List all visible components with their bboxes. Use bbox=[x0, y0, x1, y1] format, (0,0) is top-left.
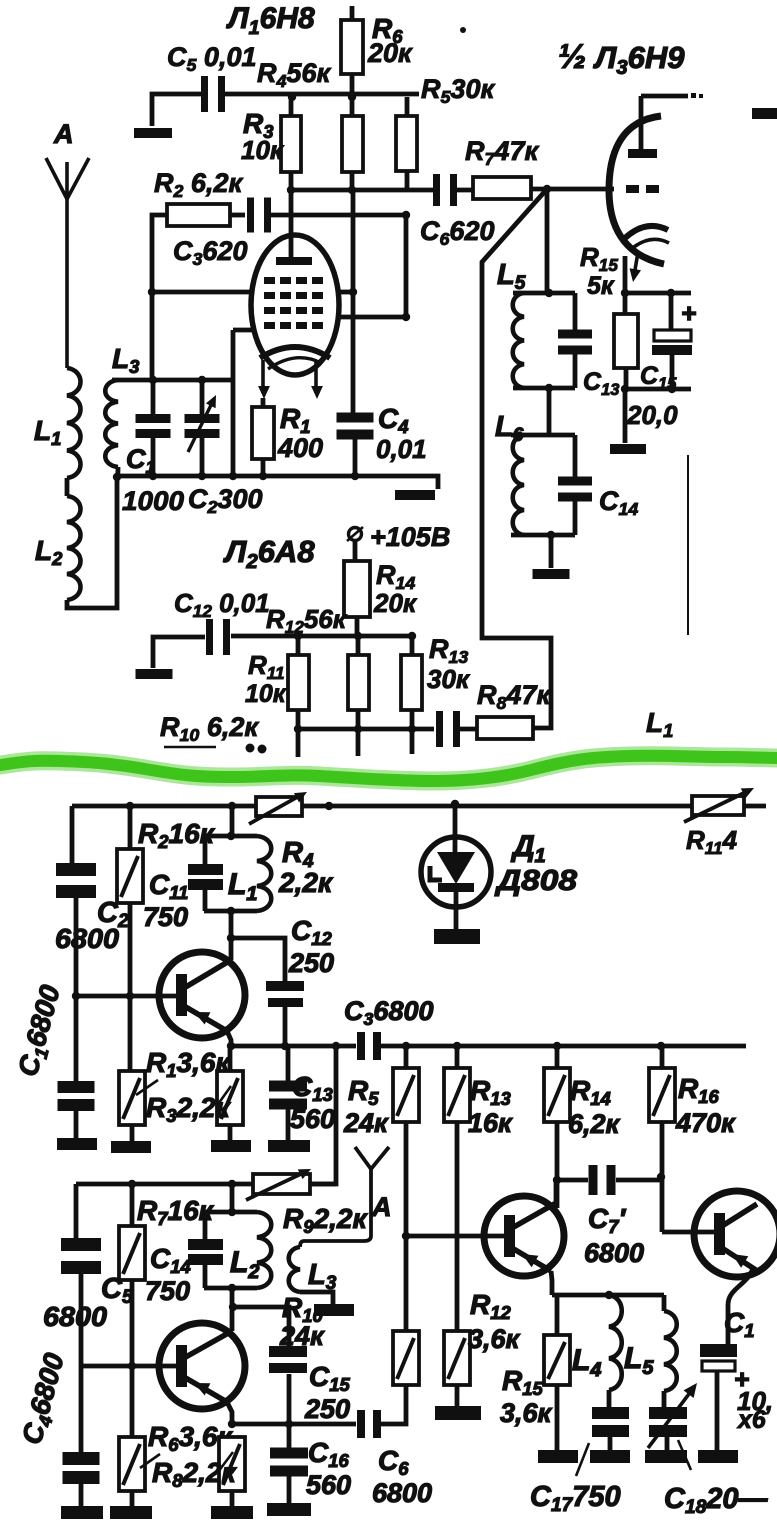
svg-text:А: А bbox=[371, 1192, 392, 1222]
resistor R15 bbox=[614, 314, 638, 368]
node bbox=[294, 725, 302, 733]
wire bbox=[230, 1288, 235, 1307]
svg-text:R2 6,2к: R2 6,2к bbox=[154, 168, 243, 201]
node bbox=[287, 186, 295, 194]
wire bbox=[204, 1210, 257, 1215]
svg-text:Д808: Д808 bbox=[494, 865, 578, 897]
wire bbox=[220, 92, 419, 97]
wire bbox=[203, 890, 208, 911]
resistor R5b bbox=[393, 1068, 419, 1122]
node bbox=[348, 186, 356, 194]
wire tank1 bbox=[230, 806, 235, 834]
capacitor C5 bbox=[201, 76, 208, 112]
ground bbox=[590, 1450, 630, 1463]
wire bbox=[310, 1046, 336, 1184]
wire bbox=[153, 637, 205, 668]
svg-text:R456к: R456к bbox=[257, 58, 331, 91]
coil L4 bbox=[609, 1295, 622, 1390]
transistor T2 bbox=[159, 1323, 245, 1409]
ground bbox=[434, 929, 480, 944]
wire dots bbox=[691, 93, 696, 98]
resistor R11b bbox=[288, 655, 309, 710]
coil L1 bbox=[67, 368, 81, 478]
wire anode bbox=[289, 190, 294, 258]
svg-text:х6: х6 bbox=[736, 1406, 767, 1434]
svg-text:R32,2к: R32,2к bbox=[146, 1092, 231, 1126]
ground bbox=[111, 1141, 151, 1153]
wire bbox=[404, 1122, 409, 1236]
ground bbox=[57, 1138, 97, 1150]
T4 collector bbox=[722, 1204, 757, 1226]
capacitor C6 bbox=[433, 174, 440, 206]
capacitor C15 elec bbox=[654, 330, 691, 341]
wire bbox=[227, 1402, 232, 1424]
T2 base bar bbox=[176, 1345, 187, 1387]
svg-text:C3620: C3620 bbox=[173, 236, 247, 269]
wire bbox=[625, 291, 691, 296]
wire anode V3 bbox=[639, 96, 644, 150]
transistor T4 bbox=[694, 1191, 777, 1277]
svg-text:+: + bbox=[681, 298, 696, 328]
coil L5b bbox=[664, 1311, 677, 1391]
wire bbox=[552, 1293, 664, 1298]
svg-text:0,01: 0,01 bbox=[376, 434, 427, 464]
wire bbox=[291, 188, 434, 193]
svg-text:R747к: R747к bbox=[465, 136, 539, 169]
dots bbox=[246, 744, 255, 753]
wire bbox=[728, 1268, 753, 1344]
wire grid1 bbox=[152, 290, 252, 295]
ground bbox=[533, 569, 570, 579]
capacitor C12v bbox=[266, 981, 304, 991]
svg-text:C6620: C6620 bbox=[420, 216, 494, 249]
resistor R16 bbox=[649, 1068, 675, 1122]
diode D1 triangle bbox=[437, 852, 475, 884]
svg-text:20,0: 20,0 bbox=[626, 400, 678, 430]
node bbox=[402, 211, 410, 219]
ground bbox=[268, 1140, 310, 1152]
tube V3 cath arrow bbox=[634, 252, 638, 276]
resistor R8c bbox=[219, 1437, 245, 1491]
capacitor C4 bbox=[337, 413, 374, 423]
capacitor C13 bbox=[558, 330, 592, 339]
capacitor C2 arrow bbox=[188, 403, 212, 452]
wire tails bbox=[296, 729, 301, 757]
green divider bbox=[0, 756, 777, 781]
wire bbox=[283, 1007, 288, 1046]
ground bbox=[395, 490, 435, 500]
svg-text:20к: 20к bbox=[373, 588, 418, 618]
svg-text:Л16Н8: Л16Н8 bbox=[226, 2, 315, 39]
wire bbox=[513, 386, 575, 391]
capacitor C2 var bbox=[185, 414, 220, 423]
wire bbox=[70, 806, 75, 863]
wire bbox=[74, 1184, 79, 1238]
resistor R14b bbox=[344, 561, 370, 617]
antenna A2 bbox=[355, 1147, 389, 1169]
ground bbox=[110, 1506, 152, 1519]
wire bbox=[381, 1385, 406, 1424]
resistor R8b bbox=[477, 717, 533, 739]
coil L3b bbox=[289, 1247, 300, 1292]
wire bbox=[152, 94, 206, 126]
svg-text:2,2к: 2,2к bbox=[278, 867, 334, 898]
capacitor C5b bbox=[61, 1238, 101, 1251]
coil L3 bbox=[105, 380, 118, 467]
svg-text:C36800: C36800 bbox=[344, 996, 434, 1029]
wire bbox=[117, 467, 118, 477]
svg-text:6800: 6800 bbox=[372, 1478, 432, 1508]
T4 emitter bbox=[722, 1248, 756, 1270]
rheostat R4 bbox=[256, 797, 302, 816]
resistor R6b bbox=[119, 1437, 145, 1491]
wire base4 bbox=[662, 1230, 714, 1235]
capacitor C6b bbox=[357, 1410, 365, 1438]
resistor R13c bbox=[444, 1068, 470, 1122]
diode D1 circle bbox=[421, 837, 491, 907]
svg-text:6800: 6800 bbox=[43, 1301, 107, 1332]
node bbox=[348, 93, 356, 101]
coil L5 bbox=[513, 293, 524, 388]
wire emitter bus bbox=[231, 1044, 356, 1049]
capacitor C15b bbox=[269, 1346, 307, 1357]
svg-text:560: 560 bbox=[306, 1470, 351, 1500]
svg-text:C7′: C7′ bbox=[588, 1203, 627, 1237]
resistor R6 bbox=[341, 20, 363, 74]
wire base2 bbox=[81, 1364, 176, 1369]
wire bbox=[557, 1178, 588, 1183]
node bbox=[402, 1232, 410, 1240]
transistor T1 bbox=[159, 952, 245, 1038]
ground bbox=[211, 1506, 253, 1519]
ground bbox=[61, 1506, 103, 1519]
resistor R7b bbox=[119, 1226, 145, 1280]
wire bbox=[203, 836, 208, 864]
coil L6 bbox=[513, 435, 524, 535]
wire bbox=[623, 256, 628, 293]
wire bbox=[660, 1122, 665, 1232]
T2 collector bbox=[184, 1331, 232, 1358]
coil L2 bbox=[67, 496, 81, 600]
node bbox=[667, 289, 675, 297]
capacitor C19 bbox=[700, 1344, 737, 1357]
wire grid2 bbox=[338, 290, 353, 295]
wire bbox=[203, 1265, 208, 1288]
svg-text:C17750: C17750 bbox=[530, 1481, 621, 1516]
svg-text:R92,2к: R92,2к bbox=[283, 1203, 368, 1237]
wire bus3 bbox=[76, 1182, 336, 1187]
ground bbox=[267, 1503, 311, 1516]
capacitor C18 arrow bbox=[648, 1390, 692, 1448]
svg-text:Л26А8: Л26А8 bbox=[223, 534, 315, 573]
wire bus2 bbox=[298, 727, 434, 732]
wire grid3 bbox=[336, 315, 406, 320]
capacitor C17 bbox=[592, 1407, 629, 1419]
wire bbox=[623, 389, 628, 443]
resistor R3 bbox=[281, 116, 301, 172]
node bbox=[294, 632, 302, 640]
ground bbox=[134, 128, 172, 138]
capacitor C3b bbox=[357, 1032, 365, 1060]
wire bbox=[67, 477, 117, 608]
wire bbox=[204, 1286, 257, 1291]
wire bbox=[454, 892, 459, 929]
node bbox=[281, 1042, 289, 1050]
wire bbox=[230, 213, 245, 218]
svg-text:R1256к: R1256к bbox=[266, 604, 348, 637]
svg-text:6,2к: 6,2к bbox=[568, 1109, 621, 1139]
capacitor C3 bbox=[247, 198, 254, 233]
resistor R5 bbox=[396, 116, 417, 171]
ground bbox=[136, 669, 173, 679]
svg-text:3,6к: 3,6к bbox=[468, 1324, 521, 1354]
resistor R2b bbox=[117, 849, 143, 903]
tube V3 cathode bbox=[625, 226, 668, 238]
svg-text:20к: 20к bbox=[367, 38, 413, 68]
wire bbox=[270, 213, 406, 218]
capacitor C13b bbox=[269, 1081, 307, 1092]
capacitor C4b bbox=[63, 1452, 100, 1465]
T3 base bar bbox=[504, 1215, 515, 1257]
node bbox=[227, 934, 235, 942]
wire bbox=[555, 1122, 560, 1208]
capacitor C12b bbox=[206, 619, 213, 655]
svg-text:750: 750 bbox=[145, 1276, 190, 1306]
node bbox=[288, 93, 296, 101]
wire bbox=[404, 215, 409, 317]
ground bbox=[211, 1140, 251, 1152]
tube heater leads bbox=[261, 360, 265, 393]
capacitor C9 bbox=[436, 711, 443, 747]
resistor R2 bbox=[167, 204, 230, 226]
wire bbox=[513, 291, 575, 296]
stray dot bbox=[460, 27, 466, 33]
wire out bus bbox=[381, 1044, 746, 1049]
node bbox=[128, 1180, 136, 1188]
wire base3 bbox=[406, 1234, 504, 1239]
wire bbox=[482, 189, 551, 728]
wire bbox=[233, 1307, 289, 1347]
capacitor C2b bbox=[56, 863, 96, 876]
wire bbox=[300, 1292, 333, 1304]
rheostat R11 bbox=[692, 796, 744, 815]
wire bbox=[229, 911, 234, 938]
svg-text:5к: 5к bbox=[587, 272, 615, 300]
svg-text:А: А bbox=[53, 119, 74, 149]
resistor R1 bbox=[252, 407, 274, 459]
wire bbox=[204, 909, 257, 914]
svg-text:250: 250 bbox=[304, 1394, 350, 1424]
T1 base bar bbox=[176, 974, 187, 1016]
wire bbox=[203, 1212, 208, 1239]
wire bbox=[455, 1122, 460, 1331]
capacitor C16 bbox=[270, 1448, 308, 1459]
wire tank2 bbox=[230, 1184, 235, 1211]
svg-text:C2300: C2300 bbox=[188, 484, 262, 517]
capacitor C14 bbox=[558, 477, 592, 486]
tube V3 grid bbox=[626, 185, 639, 193]
T4 base bar bbox=[714, 1213, 725, 1255]
svg-text:24к: 24к bbox=[279, 1321, 325, 1351]
node bbox=[229, 1303, 237, 1311]
resistor R15b bbox=[544, 1335, 570, 1385]
wire bus bbox=[117, 476, 438, 489]
resistor R7 bbox=[473, 177, 531, 199]
wire bbox=[551, 1271, 552, 1295]
wire bbox=[231, 938, 285, 982]
svg-text:C1820—: C1820— bbox=[664, 1483, 768, 1518]
corner mark bbox=[752, 108, 777, 119]
T1 emitter bbox=[184, 1006, 227, 1031]
coil L2c bbox=[257, 1212, 271, 1288]
wire bbox=[616, 1178, 662, 1183]
T1 collector bbox=[184, 960, 231, 988]
node bbox=[126, 802, 134, 810]
node bbox=[148, 288, 156, 296]
capacitor C1 bbox=[136, 414, 171, 423]
ground bbox=[538, 1450, 578, 1463]
capacitor C18 var bbox=[649, 1407, 687, 1419]
resistor R3b bbox=[217, 1071, 243, 1125]
svg-text:1000: 1000 bbox=[122, 486, 184, 516]
capacitor C11 bbox=[188, 864, 223, 875]
tube V3 anode plate bbox=[628, 149, 657, 158]
resistor mid bbox=[348, 655, 369, 710]
wire bus bbox=[231, 634, 414, 639]
svg-text:16к: 16к bbox=[468, 1108, 513, 1138]
wire base bbox=[76, 994, 176, 999]
resistor R12c bbox=[444, 1331, 470, 1385]
T3 collector bbox=[512, 1203, 556, 1228]
tube V3 envelope bbox=[609, 116, 664, 264]
resistor R13b bbox=[401, 655, 422, 710]
svg-text:250: 250 bbox=[288, 948, 334, 978]
node bbox=[553, 1176, 561, 1184]
wire bbox=[351, 190, 356, 413]
tube anode plate bbox=[276, 257, 312, 265]
svg-text:6800: 6800 bbox=[55, 923, 119, 954]
node bbox=[402, 1042, 410, 1050]
capacitor C4 wire bbox=[353, 438, 358, 476]
node A bbox=[543, 185, 551, 193]
svg-text:10к: 10к bbox=[241, 135, 285, 165]
wire bbox=[152, 215, 167, 381]
svg-text:750: 750 bbox=[143, 902, 188, 932]
svg-text:470к: 470к bbox=[675, 1108, 736, 1138]
wire bbox=[545, 189, 550, 293]
svg-text:6800: 6800 bbox=[584, 1238, 644, 1268]
tube grids bbox=[264, 277, 275, 284]
ground bbox=[698, 1450, 738, 1463]
wire emitter bus2 bbox=[232, 1422, 356, 1427]
edge line bbox=[687, 455, 689, 635]
svg-text:400: 400 bbox=[277, 433, 323, 463]
resistor R4 bbox=[342, 116, 363, 172]
supply terminal bbox=[349, 528, 362, 541]
ground bbox=[610, 444, 646, 454]
resistor R10c bbox=[393, 1331, 419, 1385]
capacitor C1b bbox=[58, 1081, 95, 1093]
capacitor C14b bbox=[188, 1239, 223, 1250]
svg-text:C5 0,01: C5 0,01 bbox=[167, 42, 256, 75]
svg-text:+105В: +105В bbox=[370, 522, 450, 552]
antenna bbox=[46, 158, 89, 199]
wire bbox=[511, 533, 575, 538]
tube V1 envelope bbox=[251, 235, 339, 375]
node bbox=[285, 1420, 293, 1428]
wire bbox=[65, 478, 70, 496]
svg-text:C12 0,01: C12 0,01 bbox=[174, 588, 270, 621]
wire bbox=[531, 187, 614, 192]
ground bbox=[435, 1406, 481, 1420]
wire bbox=[625, 387, 691, 392]
svg-text:R10 6,2к: R10 6,2к bbox=[160, 712, 259, 745]
capacitor C7 bbox=[589, 1165, 598, 1195]
svg-text:R530к: R530к bbox=[421, 74, 495, 107]
node bbox=[113, 473, 121, 481]
wire bbox=[547, 388, 552, 435]
wire bbox=[204, 834, 257, 839]
T3 emitter bbox=[512, 1248, 551, 1271]
svg-text:24к: 24к bbox=[343, 1108, 389, 1138]
wire bbox=[227, 1031, 231, 1046]
svg-text:30к: 30к bbox=[427, 664, 471, 694]
svg-text:3,6к: 3,6к bbox=[500, 1398, 553, 1428]
coil L1c bbox=[257, 836, 271, 911]
node bbox=[621, 289, 629, 297]
wire bbox=[233, 328, 253, 333]
resistor R1b bbox=[119, 1071, 145, 1125]
diode D1 bbox=[453, 804, 458, 853]
resistor R14c bbox=[544, 1068, 570, 1122]
wire bbox=[456, 188, 473, 193]
rheostat R9 bbox=[253, 1174, 310, 1194]
wire bbox=[662, 1295, 667, 1311]
T2 emitter bbox=[184, 1377, 227, 1402]
svg-text:560: 560 bbox=[290, 1104, 335, 1134]
ground bbox=[645, 1450, 687, 1463]
transistor T3 bbox=[484, 1196, 564, 1276]
wire bbox=[112, 378, 233, 383]
wire bbox=[511, 433, 575, 438]
ground bbox=[314, 1304, 354, 1316]
svg-text:R847к: R847к bbox=[477, 680, 551, 713]
svg-text:10к: 10к bbox=[245, 680, 287, 708]
wire bbox=[549, 535, 554, 568]
tube cathode bbox=[260, 347, 330, 358]
wire top bus bbox=[72, 804, 766, 809]
